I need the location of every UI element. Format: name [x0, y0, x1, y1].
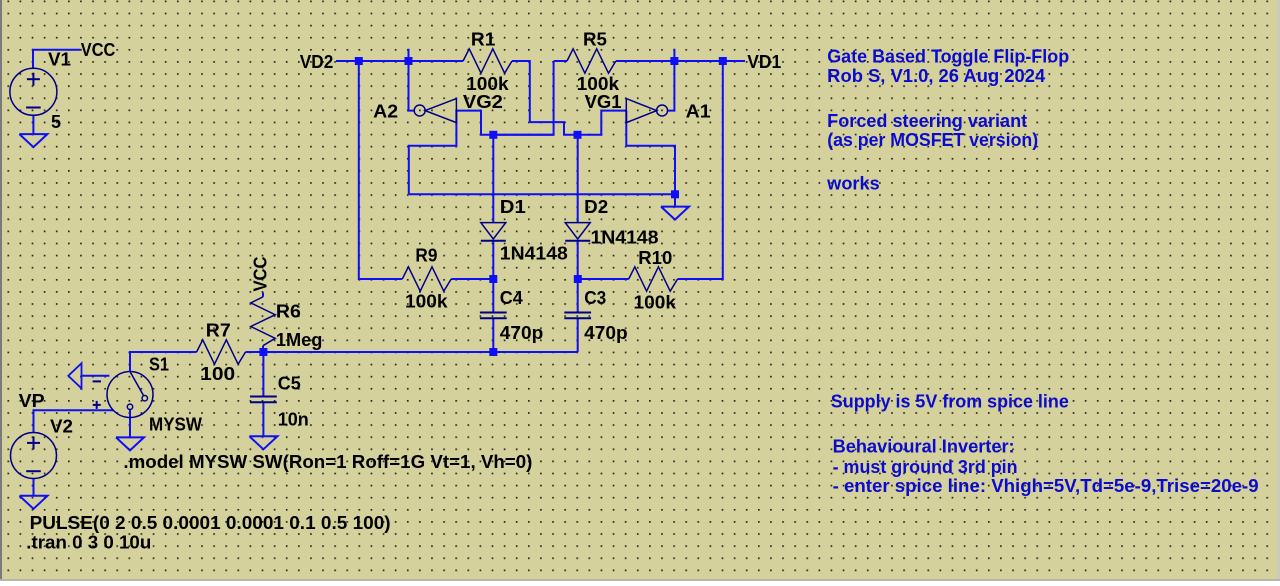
svg-text:VG2: VG2	[463, 92, 503, 112]
svg-text:VD1: VD1	[747, 52, 781, 72]
wire R7 right	[246, 351, 264, 353]
ground V2	[20, 496, 48, 509]
wire C5 top	[262, 352, 264, 397]
svg-text:- must ground 3rd pin: - must ground 3rd pin	[833, 457, 1018, 477]
svg-text:R10: R10	[638, 248, 672, 268]
wire ground bus stub	[674, 194, 676, 206]
ground V1	[19, 134, 47, 147]
svg-text:Gate Based Toggle Flip-Flop: Gate Based Toggle Flip-Flop	[827, 46, 1069, 66]
resistor R9	[402, 267, 451, 291]
node inverter ground junction	[671, 190, 679, 198]
wire R5 left drop to D1 node	[493, 61, 553, 135]
svg-text:1N4148: 1N4148	[591, 227, 659, 247]
wire C4 bottom	[492, 318, 494, 352]
wire VD1 label stub	[723, 60, 745, 62]
ground inverter bus	[661, 207, 689, 220]
node A1 output junction	[670, 57, 678, 65]
node R6-R7-C5 junction	[259, 348, 267, 356]
svg-text:D2: D2	[584, 197, 608, 217]
wire D1 anode	[492, 135, 494, 223]
wire D1 node to R5 elbow	[493, 134, 553, 136]
wire D2 anode	[577, 135, 579, 223]
svg-text:10n: 10n	[278, 410, 309, 430]
svg-text:works: works	[826, 173, 880, 193]
svg-text:100k: 100k	[634, 293, 678, 313]
wire VD1 down to R10	[678, 61, 723, 279]
wire D2 cathode	[577, 241, 579, 279]
svg-text:A2: A2	[373, 102, 398, 122]
wire V1 top to VCC flag	[33, 50, 81, 69]
svg-text:R7: R7	[206, 320, 231, 340]
wire V2 to S1 plus pin	[34, 410, 114, 432]
wire R1 cross to D2 node	[530, 122, 578, 135]
svg-text:VCC: VCC	[81, 40, 116, 60]
svg-text:100k: 100k	[405, 292, 449, 312]
wire R9 right to D1 cap node	[451, 278, 493, 280]
wire C4 top	[492, 279, 494, 313]
wire C3 top	[577, 279, 579, 313]
svg-text:Forced steering variant: Forced steering variant	[827, 111, 1027, 131]
wire A1 output up	[668, 49, 674, 111]
svg-text:VG1: VG1	[585, 92, 622, 112]
resistor R6	[251, 297, 275, 346]
wire S1 minus pin	[81, 375, 110, 377]
wire A1 ground pin	[626, 111, 675, 195]
svg-text:5: 5	[51, 112, 61, 132]
wire to R1 left	[409, 60, 464, 62]
svg-text:(as per MOSFET version): (as per MOSFET version)	[827, 130, 1038, 150]
svg-text:100: 100	[200, 364, 235, 384]
svg-text:470p: 470p	[584, 323, 628, 343]
wire D2 node to A1 input step	[578, 111, 627, 135]
svg-text:- enter spice line: Vhigh=5V,T: - enter spice line: Vhigh=5V,Td=5e-9,Tri…	[833, 476, 1259, 496]
wire inverter ground bus	[409, 193, 675, 195]
svg-text:100k: 100k	[466, 74, 510, 94]
wire R7 left to S1 top	[130, 352, 197, 372]
svg-text:D1: D1	[500, 197, 526, 217]
svg-text:C5: C5	[278, 374, 301, 394]
diode D1	[481, 223, 506, 241]
wire A1 node to VD1 node	[674, 60, 722, 62]
wire R5 left stub	[554, 60, 567, 62]
node D2 anode junction	[574, 131, 582, 139]
svg-text:A1: A1	[686, 102, 711, 122]
node D1 anode junction	[489, 131, 497, 139]
wire R6 top VCC stub	[262, 293, 264, 297]
capacitor C4	[480, 313, 507, 319]
window border left	[0, 0, 2, 581]
svg-text:R6: R6	[276, 301, 301, 321]
svg-text:R5: R5	[583, 29, 607, 49]
wire V2 bottom stub	[33, 479, 35, 496]
wire bottom bus	[263, 351, 577, 353]
svg-text:PULSE(0 2 0.5 0.0001 0.0001 0.: PULSE(0 2 0.5 0.0001 0.0001 0.1 0.5 100)	[30, 513, 391, 533]
wire R6 bottom stub	[262, 346, 264, 352]
wire A2 output up	[409, 49, 414, 111]
switch S1	[93, 372, 153, 418]
wire S1 bottom	[129, 410, 131, 438]
node D2-C3-R10 junction	[574, 275, 582, 283]
svg-text:VCC: VCC	[250, 257, 270, 292]
wire A2 ground pin	[409, 111, 457, 195]
wire VD2 label stub	[336, 60, 359, 62]
resistor R10	[629, 267, 678, 291]
wire R10 left to D2 cap node	[578, 278, 629, 280]
resistor R5	[567, 49, 616, 73]
svg-text:.model MYSW SW(Ron=1 Roff=1G V: .model MYSW SW(Ron=1 Roff=1G Vt=1, Vh=0)	[123, 452, 532, 472]
svg-text:VD2: VD2	[300, 52, 334, 72]
wire C3 bottom	[577, 318, 579, 352]
svg-text:Supply is 5V from spice line: Supply is 5V from spice line	[831, 391, 1069, 411]
wire VD2 down to R9	[359, 61, 403, 279]
svg-text:470p: 470p	[500, 323, 544, 343]
svg-text:V2: V2	[50, 416, 73, 436]
svg-text:R9: R9	[415, 246, 437, 266]
ground S1	[116, 437, 144, 450]
svg-text:1N4148: 1N4148	[500, 243, 568, 263]
wire C5 bottom	[262, 402, 264, 436]
resistor R7	[197, 340, 246, 364]
capacitor C5	[250, 397, 277, 403]
svg-text:VP: VP	[19, 391, 45, 411]
capacitor C3	[564, 313, 591, 319]
ground C5	[249, 436, 277, 449]
node D1-C4-R9 junction	[489, 275, 497, 283]
wire node VD2 to A2 output node	[359, 60, 409, 62]
svg-text:MYSW: MYSW	[149, 415, 202, 435]
svg-text:R1: R1	[471, 29, 496, 49]
wire R1 right drop	[512, 61, 530, 122]
op-amp inverter A2	[414, 99, 456, 123]
voltage source V2	[11, 433, 57, 479]
svg-text:S1: S1	[149, 354, 169, 374]
wire R5 right to A1 output node	[616, 60, 675, 62]
node A2 output junction	[405, 57, 413, 65]
node VD2 junction	[355, 57, 363, 65]
svg-text:100k: 100k	[577, 74, 621, 94]
wire V1 bottom stub	[32, 115, 34, 134]
window border bottom	[0, 579, 1280, 581]
arrow S1 minus control marker	[68, 363, 81, 388]
voltage source V1	[10, 68, 57, 115]
svg-text:.tran 0 3 0 10u: .tran 0 3 0 10u	[26, 533, 151, 553]
wire D1 cathode	[492, 241, 494, 279]
svg-text:V1: V1	[48, 49, 71, 69]
svg-text:C3: C3	[584, 288, 606, 308]
wire A2 input step	[456, 111, 493, 135]
diode D2	[565, 223, 590, 241]
resistor R1	[463, 49, 512, 73]
node C4 bottom junction	[489, 348, 497, 356]
node VD1 junction	[719, 57, 727, 65]
svg-text:Rob S, V1.0, 26 Aug 2024: Rob S, V1.0, 26 Aug 2024	[827, 66, 1045, 86]
svg-text:Behavioural Inverter:: Behavioural Inverter:	[833, 436, 1015, 456]
svg-text:C4: C4	[500, 288, 523, 308]
window border right	[1277, 0, 1280, 581]
svg-text:1Meg: 1Meg	[276, 330, 323, 350]
op-amp inverter A1	[626, 99, 667, 123]
